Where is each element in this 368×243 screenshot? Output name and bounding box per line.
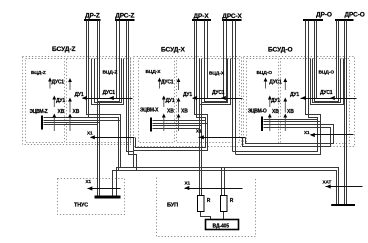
svg-text:Х1: Х1 <box>304 130 310 135</box>
svg-text:ВД-405: ВД-405 <box>213 224 230 230</box>
svg-text:ХВ: ХВ <box>287 109 294 115</box>
svg-text:R: R <box>207 198 211 204</box>
svg-text:ДУС1: ДУС1 <box>320 90 333 96</box>
svg-text:ДУ1: ДУ1 <box>166 98 175 104</box>
svg-text:ДУС1: ДУС1 <box>161 80 174 86</box>
svg-text:ХВ: ХВ <box>58 109 65 115</box>
svg-text:БСУД-Х: БСУД-Х <box>161 47 185 54</box>
svg-text:ТНУС: ТНУС <box>74 203 88 209</box>
svg-text:ДУС1: ДУС1 <box>52 80 65 86</box>
svg-text:ХВ: ХВ <box>181 109 188 115</box>
svg-text:R: R <box>230 198 234 204</box>
svg-text:ЭЦВМ-Z: ЭЦВМ-Z <box>30 109 48 115</box>
svg-text:ВЦД-О: ВЦД-О <box>319 70 335 76</box>
svg-text:ДУ1: ДУ1 <box>75 92 84 98</box>
svg-text:БЦД-Z: БЦД-Z <box>31 70 46 76</box>
svg-text:Х1: Х1 <box>185 181 191 186</box>
svg-text:ЭЦВМ-Х: ЭЦВМ-Х <box>140 108 159 114</box>
svg-text:ДУС1: ДУС1 <box>212 90 225 96</box>
svg-text:Х1: Х1 <box>86 179 92 184</box>
svg-text:ВЦД-Z: ВЦД-Z <box>103 70 118 76</box>
svg-text:ДР-Х: ДР-Х <box>194 13 210 20</box>
svg-text:ДУ1: ДУ1 <box>290 92 299 98</box>
svg-text:ХВ: ХВ <box>272 109 279 115</box>
svg-text:БСУД-Z: БСУД-Z <box>52 46 75 53</box>
svg-text:ДУС1: ДУС1 <box>269 80 282 86</box>
svg-text:ЭЦВМ-О: ЭЦВМ-О <box>248 109 267 115</box>
svg-text:ХАТ: ХАТ <box>323 180 332 185</box>
svg-text:ДРС-Х: ДРС-Х <box>222 13 242 20</box>
svg-text:БЦД-О: БЦД-О <box>257 70 273 76</box>
svg-text:Х1: Х1 <box>196 129 202 134</box>
svg-text:ВЦД-Х: ВЦД-Х <box>209 71 225 77</box>
svg-text:ДРС-О: ДРС-О <box>345 12 365 19</box>
svg-text:ДУ1: ДУ1 <box>183 92 192 98</box>
svg-text:ДР-О: ДР-О <box>316 12 332 19</box>
svg-text:ХВ: ХВ <box>73 109 80 115</box>
svg-text:БСУД-О: БСУД-О <box>268 47 293 54</box>
svg-text:Х1: Х1 <box>87 131 93 136</box>
svg-text:ДР-Z: ДР-Z <box>85 13 100 20</box>
svg-text:ДУ1: ДУ1 <box>56 98 65 104</box>
svg-text:ДУС1: ДУС1 <box>103 90 116 96</box>
svg-text:БЦД-Х: БЦД-Х <box>146 69 162 75</box>
svg-text:БУП: БУП <box>167 203 178 209</box>
svg-text:ХВ: ХВ <box>167 109 174 115</box>
svg-text:ДРС-Z: ДРС-Z <box>115 13 134 20</box>
svg-text:ДУ1: ДУ1 <box>271 98 280 104</box>
